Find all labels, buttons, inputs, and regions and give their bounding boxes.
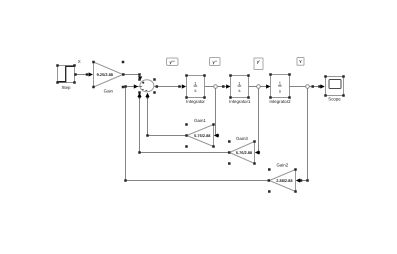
tag box y' bbox=[254, 58, 263, 70]
tag box y'' bbox=[210, 58, 221, 66]
svg-text:Gain: Gain bbox=[104, 89, 114, 94]
step source block Step bbox=[56, 64, 76, 90]
wire Gain2 to Sum left bbox=[124, 84, 270, 181]
integrator block Integrator 1/s bbox=[185, 74, 206, 104]
gain block Gain2 2.88/2.88 bbox=[268, 162, 297, 192]
svg-text:5.76/2.88: 5.76/2.88 bbox=[194, 133, 211, 138]
svg-text:Step: Step bbox=[61, 85, 71, 90]
gain block Gain1 5.76/2.88 bbox=[185, 118, 215, 148]
svg-text:s: s bbox=[238, 88, 240, 93]
wire Step to Gain bbox=[74, 72, 93, 76]
svg-text:5.76/2.88: 5.76/2.88 bbox=[236, 150, 253, 155]
wire Integrator to Integrator1 bbox=[205, 84, 231, 88]
svg-text:s: s bbox=[194, 88, 196, 93]
wire Integrator1 to Integrator2 bbox=[249, 84, 271, 88]
svg-text:s: s bbox=[279, 88, 281, 93]
wire tap down to Gain2 bbox=[296, 88, 309, 182]
svg-text:Gain2: Gain2 bbox=[276, 162, 288, 167]
integrator block Integrator1 1/s bbox=[229, 74, 251, 104]
scope block Scope bbox=[324, 75, 345, 101]
tag box y''' bbox=[167, 58, 179, 66]
svg-text:Gain1: Gain1 bbox=[194, 118, 206, 123]
gain block Gain 9.25/2.88 bbox=[92, 61, 124, 94]
wire tap down to Gain3 bbox=[255, 88, 260, 154]
svg-text:2.88/2.88: 2.88/2.88 bbox=[276, 178, 293, 183]
svg-text:Y: Y bbox=[299, 59, 302, 64]
tag box y bbox=[297, 58, 304, 66]
wire Integrator2 to Scope bbox=[290, 84, 325, 88]
svg-text:X: X bbox=[78, 59, 81, 64]
junction node tap y'' bbox=[214, 85, 218, 89]
junction node tap y' bbox=[257, 85, 261, 89]
svg-text:y''': y''' bbox=[169, 60, 174, 65]
svg-text:Integrator2: Integrator2 bbox=[269, 99, 291, 104]
svg-text:y'': y'' bbox=[213, 59, 217, 64]
svg-text:9.25/2.88: 9.25/2.88 bbox=[97, 72, 114, 77]
wire Sum to Integrator bbox=[154, 84, 186, 88]
gain block Gain3 5.76/2.88 bbox=[228, 136, 256, 165]
integrator block Integrator2 1/s bbox=[269, 73, 291, 104]
junction node tap y bbox=[306, 85, 310, 89]
svg-text:Integrator: Integrator bbox=[186, 99, 205, 104]
svg-text:Scope: Scope bbox=[328, 97, 341, 102]
svg-text:y': y' bbox=[257, 59, 260, 64]
wire Gain3 to Sum bottom bbox=[137, 93, 230, 154]
sum block Sum bbox=[138, 78, 156, 94]
wire Gain to Sum top bbox=[122, 73, 142, 80]
wire tap down to Gain1 bbox=[214, 88, 219, 137]
wire Gain1 to Sum bottom bbox=[145, 93, 187, 137]
svg-text:Integrator1: Integrator1 bbox=[229, 99, 251, 104]
svg-text:Gain3: Gain3 bbox=[236, 136, 248, 141]
